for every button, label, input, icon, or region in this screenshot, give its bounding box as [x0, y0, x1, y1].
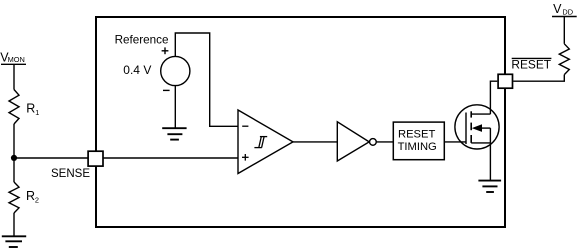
resistor R2 — [9, 182, 19, 213]
wire VMON to R1 — [13, 64, 15, 89]
VMON terminal bar — [1, 63, 26, 65]
wire node A to SENSE pin — [14, 157, 89, 159]
svg-text:RESET: RESET — [511, 57, 551, 71]
wire pull-up resistor to VDD — [563, 17, 565, 44]
svg-text:SENSE: SENSE — [51, 168, 90, 180]
svg-text:V: V — [553, 2, 562, 16]
RESET pin label with overline — [511, 57, 551, 71]
VDD terminal bar — [552, 16, 577, 18]
ground (reference) — [162, 128, 186, 139]
resistor R1 — [9, 90, 19, 125]
ground (bottom-left) — [2, 236, 26, 247]
inverter output bubble — [370, 139, 377, 146]
svg-text:1: 1 — [35, 108, 39, 117]
block RESET TIMING — [393, 122, 444, 160]
node VMON label — [0, 50, 25, 64]
wire R1 to node A — [13, 124, 15, 158]
minus polarity mark of reference — [163, 89, 170, 91]
wire SENSE pin to comparator non-inverting input — [103, 157, 239, 159]
svg-text:R: R — [26, 189, 35, 203]
wire node A to R2 — [13, 158, 15, 182]
svg-text:RESET: RESET — [398, 129, 435, 141]
transistor Q1 (open-drain NMOS) — [455, 105, 499, 149]
wire R2 to ground — [13, 213, 15, 236]
svg-text:R: R — [26, 101, 35, 115]
comparator inverting input mark — [242, 125, 248, 127]
wire reset timing block to MOSFET gate — [444, 141, 466, 143]
R2 value label — [26, 189, 39, 205]
wire MOSFET drain to RESET pin — [490, 81, 497, 114]
wire inverter to reset timing block — [376, 141, 393, 143]
comparator non-inverting input mark — [242, 154, 249, 161]
node A junction dot — [11, 155, 17, 161]
IC boundary box — [96, 17, 505, 227]
comparator U1 (triangle) — [238, 110, 293, 174]
svg-text:DD: DD — [562, 8, 573, 17]
node VDD label — [553, 2, 573, 17]
wire RESET pin to pull-up resistor — [513, 75, 564, 82]
pin RESET (terminal square) — [498, 74, 512, 88]
svg-text:2: 2 — [35, 195, 39, 204]
wire comparator output to inverter — [293, 141, 337, 143]
plus polarity mark of reference — [162, 47, 169, 54]
R1 value label — [26, 101, 39, 117]
inverter U2 (triangle) — [337, 122, 369, 161]
resistor R3 (pull-up) — [559, 44, 569, 75]
hysteresis symbol inside comparator — [254, 137, 267, 148]
svg-text:TIMING: TIMING — [398, 141, 437, 153]
wire MOSFET source to ground — [489, 143, 491, 181]
voltage source V1 0.4V (circle) — [161, 56, 190, 85]
svg-text:Reference: Reference — [115, 33, 169, 46]
pin SENSE (terminal square) — [88, 151, 103, 166]
svg-text:0.4 V: 0.4 V — [123, 63, 151, 77]
ground (MOSFET source) — [478, 181, 501, 192]
wire reference bottom to ground — [174, 86, 176, 129]
svg-text:MON: MON — [8, 55, 25, 64]
wire reference top to comparator inverting input — [175, 33, 238, 126]
